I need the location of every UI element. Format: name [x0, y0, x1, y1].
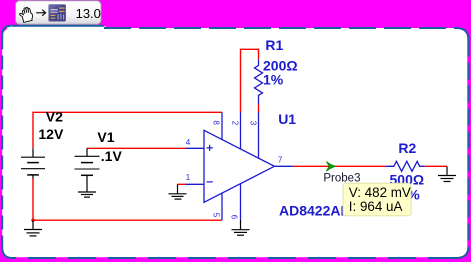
op-amp plus marking	[207, 145, 213, 151]
battery V1 symbol	[75, 148, 100, 192]
svg-text:R2: R2	[398, 140, 416, 156]
pin 8 lead	[221, 112, 223, 140]
wire: R1 bottom to pin 3	[258, 104, 260, 112]
svg-text:7: 7	[278, 155, 283, 164]
svg-text:R1: R1	[265, 37, 283, 53]
pin 2 lead	[240, 112, 242, 149]
svg-text:8: 8	[212, 120, 221, 125]
white patch under toolbar chip	[7, 26, 106, 32]
ground at pin 1	[169, 184, 187, 199]
wire: V2 top to pin 8	[33, 112, 222, 148]
pin 4 lead	[186, 147, 205, 149]
window border: dashed right edge	[468, 40, 470, 248]
wire: V1 to pin 4	[87, 147, 186, 149]
svg-text:.1V: .1V	[101, 148, 123, 164]
svg-text:5: 5	[211, 213, 220, 218]
svg-text:I: 964 uA: I: 964 uA	[349, 199, 403, 214]
window border: dashed top edge	[104, 27, 456, 29]
wire: R1 loop to pin 2	[241, 49, 259, 112]
probe readout tooltip	[343, 183, 411, 216]
svg-text:1: 1	[186, 173, 191, 182]
ground under V1	[78, 192, 96, 197]
battery V2 symbol	[21, 148, 45, 178]
svg-text:13.0: 13.0	[76, 6, 101, 21]
svg-text:3: 3	[249, 121, 258, 126]
toolbar cursor chip	[16, 1, 102, 24]
resistor R2 body	[386, 161, 425, 171]
svg-text:V: 482 mV: V: 482 mV	[349, 185, 411, 200]
wire: output pin 7 to R2	[293, 165, 386, 167]
window border: top-right corner arc	[456, 28, 469, 40]
probe Probe3 arrow	[326, 162, 335, 172]
op-amp minus marking	[207, 181, 213, 183]
settings icon	[49, 5, 66, 22]
ground at R2 output	[438, 166, 456, 181]
wire: ground stub to pin 1	[178, 183, 186, 185]
svg-text:4: 4	[186, 138, 191, 147]
window border: dashed bottom edge	[12, 257, 456, 259]
pin 6 lead	[240, 184, 242, 220]
svg-text:1%: 1%	[263, 71, 284, 87]
hand cursor icon	[18, 6, 33, 23]
wire: R2 to ground	[425, 165, 447, 167]
window border: bottom-left corner arc	[2, 247, 12, 258]
svg-text:6: 6	[229, 215, 238, 220]
window border: solid top segment under chip	[12, 25, 104, 27]
ground under pin 6	[232, 220, 250, 236]
window border: top-left corner arc	[2, 26, 11, 36]
pin 5 lead	[221, 193, 223, 220]
wire: V2 bottom rail to pin 5	[33, 178, 222, 220]
pin 3 lead	[258, 112, 260, 159]
op-amp U1 body	[204, 130, 274, 202]
svg-text:V1: V1	[97, 129, 114, 145]
window border: bottom-right corner arc	[456, 247, 469, 258]
ground under V2	[24, 220, 42, 236]
junction dot at V2 bottom rail	[31, 219, 34, 222]
pin 7 lead	[274, 165, 293, 167]
svg-text:V2: V2	[46, 109, 63, 125]
svg-text:12V: 12V	[38, 126, 64, 142]
pin 1 lead	[186, 183, 205, 185]
svg-text:2: 2	[231, 121, 240, 126]
arrow glyph	[36, 10, 45, 16]
sheet boundary: dashed left edge	[1, 36, 3, 248]
svg-text:U1: U1	[278, 111, 296, 127]
resistor R1 body	[255, 59, 263, 104]
